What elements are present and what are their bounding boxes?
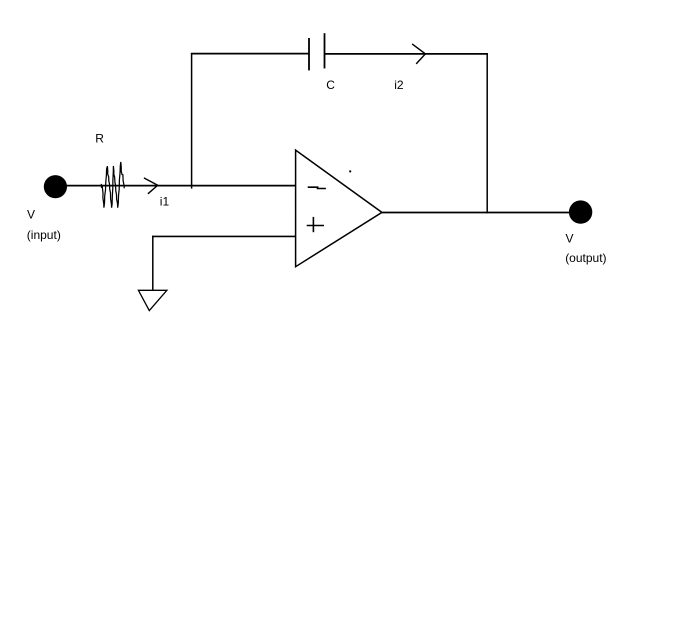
op-amp minus input symbol xyxy=(308,187,326,188)
capacitor C right plate xyxy=(324,33,326,68)
svg-text:C: C xyxy=(326,78,335,92)
output terminal V(output) xyxy=(569,200,592,223)
svg-text:R: R xyxy=(95,132,104,146)
svg-text:i2: i2 xyxy=(394,78,404,92)
wire ground riser xyxy=(152,236,154,291)
capacitor C left plate xyxy=(308,38,310,70)
wire feedback riser (left) xyxy=(191,53,193,189)
wire top left to capacitor xyxy=(191,53,309,55)
ground symbol xyxy=(138,290,167,310)
resistor R (hand-drawn squiggle) xyxy=(101,162,124,208)
wire capacitor to top right corner xyxy=(325,53,488,55)
svg-text:(input): (input) xyxy=(27,228,61,242)
input terminal V(input) xyxy=(44,175,67,198)
wire op-amp output xyxy=(382,212,572,214)
wire feedback riser (right) down to output xyxy=(486,53,488,213)
wire non-inverting input xyxy=(152,235,296,237)
current arrow i1 xyxy=(144,178,158,194)
svg-text:i1: i1 xyxy=(160,194,170,208)
svg-text:V: V xyxy=(566,232,574,246)
wire input to op-amp inverting input xyxy=(64,185,296,187)
svg-text:V: V xyxy=(27,208,35,222)
current arrow i2 xyxy=(412,44,425,64)
op-amp plus input symbol xyxy=(307,225,324,227)
op-amp U1 triangle xyxy=(296,150,382,267)
svg-text:(output): (output) xyxy=(565,251,606,265)
stray ink dot xyxy=(349,170,351,172)
